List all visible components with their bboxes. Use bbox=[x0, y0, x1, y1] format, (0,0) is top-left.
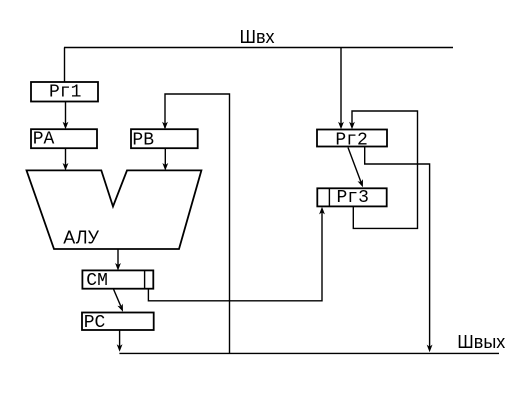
svg-text:Швх: Швх bbox=[240, 27, 275, 47]
svg-text:СМ: СМ bbox=[86, 271, 108, 291]
svg-text:РС: РС bbox=[84, 313, 106, 333]
svg-text:Швых: Швых bbox=[457, 332, 505, 352]
svg-text:РВ: РВ bbox=[132, 130, 154, 150]
svg-text:АЛУ: АЛУ bbox=[63, 228, 99, 248]
svg-text:РА: РА bbox=[33, 130, 55, 150]
svg-text:Рг3: Рг3 bbox=[337, 188, 369, 208]
svg-text:Рг1: Рг1 bbox=[49, 83, 81, 103]
svg-text:Рг2: Рг2 bbox=[335, 130, 367, 150]
